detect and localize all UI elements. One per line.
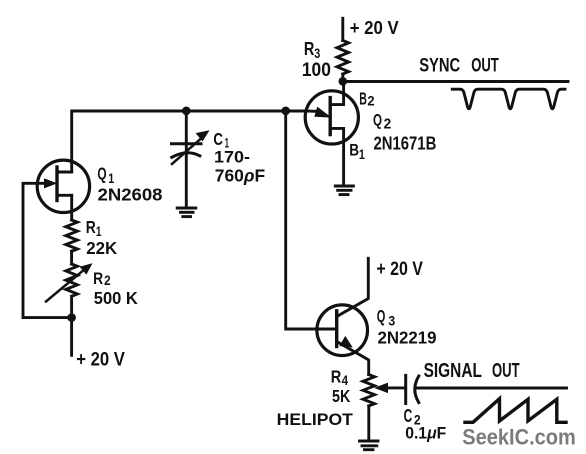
svg-text:B: B	[349, 141, 359, 160]
capacitor C1 (variable)	[172, 131, 209, 164]
svg-text:5K: 5K	[332, 386, 351, 406]
node: C1 top junction	[182, 107, 191, 116]
resistor R2 (variable)	[46, 264, 92, 302]
wire R4 wiper to C2	[385, 386, 406, 389]
wire Q2 B2 leg	[330, 82, 343, 105]
wire gate feedback left rail	[23, 183, 72, 317]
wire node A down to Q3 base	[286, 111, 317, 329]
svg-text:Q: Q	[373, 111, 382, 129]
svg-text:HELIPOT: HELIPOT	[277, 411, 353, 429]
sync output waveform	[452, 89, 565, 109]
transistor Q1 (JFET)	[37, 160, 89, 212]
svg-text:3: 3	[388, 313, 395, 329]
node: R2 bottom junction	[67, 313, 76, 322]
svg-text:+ 20 V: + 20 V	[350, 17, 400, 38]
wire C1 through variable capacitor to ground	[185, 111, 188, 208]
svg-text:3: 3	[314, 45, 320, 61]
svg-text:22K: 22K	[86, 238, 117, 258]
transistor Q2 (UJT)	[305, 91, 358, 144]
svg-text:Q: Q	[97, 163, 106, 183]
wire R3 to sync node	[341, 74, 344, 82]
wire R2 bottom to +20V terminal	[70, 296, 73, 355]
wire C2 to signal out line	[417, 387, 567, 390]
svg-text:SYNC: SYNC	[419, 56, 460, 77]
svg-text:2: 2	[384, 117, 392, 133]
svg-text:2N2219: 2N2219	[378, 328, 437, 348]
wire Q3 base inside circle	[317, 328, 336, 331]
wire +20V down to R3	[341, 18, 344, 40]
capacitor C2	[406, 375, 419, 403]
node: Q3 branch junction	[281, 107, 290, 116]
svg-text:2: 2	[367, 94, 374, 109]
svg-text:+ 20 V: + 20 V	[76, 349, 125, 371]
resistor R4 (helipot)	[363, 375, 388, 406]
wire R1 to R2	[70, 251, 73, 264]
svg-text:R: R	[331, 367, 342, 387]
ground (below Q2 B1)	[335, 186, 353, 195]
svg-text:2: 2	[104, 273, 111, 288]
svg-text:R: R	[304, 39, 315, 59]
node: sync/R3 junction	[339, 77, 348, 86]
svg-text:B: B	[359, 89, 367, 109]
resistor R3	[337, 41, 349, 75]
svg-text:R: R	[86, 217, 96, 237]
ground (below R4)	[360, 441, 379, 450]
signal output waveform (sawtooth)	[465, 399, 566, 423]
wire Q1 source down to R1	[70, 195, 73, 220]
svg-text:OUT: OUT	[492, 360, 520, 382]
svg-text:760ρF: 760ρF	[215, 166, 266, 186]
svg-text:2N1671B: 2N1671B	[374, 132, 437, 153]
svg-text:100: 100	[302, 60, 331, 81]
svg-text:0.1μF: 0.1μF	[405, 424, 446, 443]
wire Q3 collector to +20V	[337, 258, 369, 316]
svg-text:170-: 170-	[214, 148, 250, 167]
wire Q2 B1 leg to ground	[330, 128, 343, 185]
svg-text:R: R	[93, 269, 103, 288]
svg-text:500 K: 500 K	[94, 288, 138, 308]
svg-text:Q: Q	[377, 306, 386, 326]
svg-text:C: C	[213, 129, 223, 149]
wire Q3 emitter to R4	[337, 342, 369, 375]
wire top bus from Q1 drain corner to Q2 emitter	[72, 111, 306, 172]
svg-text:SeekIC.com: SeekIC.com	[462, 425, 576, 450]
transistor Q3 (NPN)	[317, 305, 368, 356]
ground (below C1)	[177, 208, 196, 217]
svg-text:1: 1	[359, 146, 365, 162]
wire sync out line	[343, 80, 568, 83]
svg-text:OUT: OUT	[471, 56, 499, 77]
svg-text:+ 20 V: + 20 V	[376, 259, 423, 280]
svg-text:SIGNAL: SIGNAL	[424, 360, 482, 382]
resistor R1	[66, 220, 78, 251]
svg-text:2N2608: 2N2608	[98, 184, 163, 204]
wire R4 bottom to ground	[367, 406, 370, 441]
